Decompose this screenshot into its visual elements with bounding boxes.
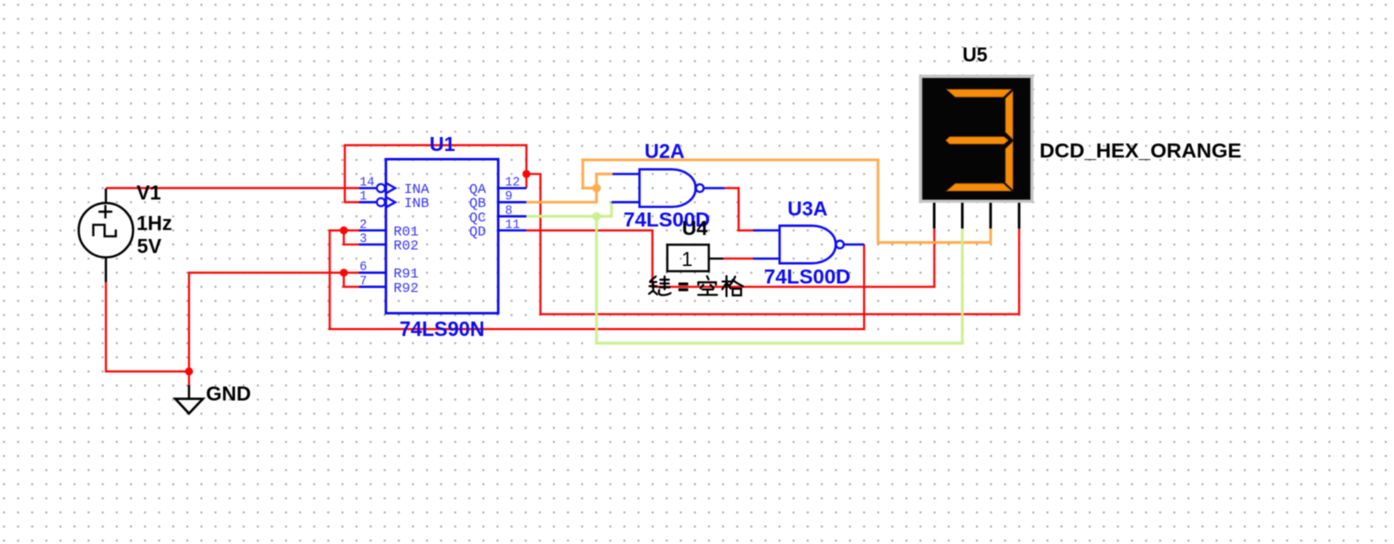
svg-text:U2A: U2A xyxy=(645,141,685,163)
svg-text:74LS90N: 74LS90N xyxy=(400,318,485,341)
svg-text:V1: V1 xyxy=(137,183,161,205)
svg-text:12: 12 xyxy=(505,176,520,190)
svg-text:9: 9 xyxy=(505,190,513,204)
svg-text:GND: GND xyxy=(206,384,251,406)
svg-text:1Hz: 1Hz xyxy=(137,213,173,235)
svg-text:DCD_HEX_ORANGE: DCD_HEX_ORANGE xyxy=(1040,141,1242,163)
svg-text:74LS00D: 74LS00D xyxy=(764,266,851,288)
svg-text:U3A: U3A xyxy=(788,199,828,221)
svg-text:U1: U1 xyxy=(430,134,456,156)
svg-text:INB: INB xyxy=(404,196,429,212)
svg-text:7: 7 xyxy=(360,274,368,288)
svg-text:1: 1 xyxy=(360,190,368,204)
svg-text:11: 11 xyxy=(505,218,520,232)
svg-text:U4: U4 xyxy=(682,218,708,240)
svg-text:2: 2 xyxy=(360,218,368,232)
svg-text:QD: QD xyxy=(469,224,486,240)
svg-text:14: 14 xyxy=(360,176,375,190)
svg-text:R02: R02 xyxy=(394,239,419,255)
svg-text:1: 1 xyxy=(681,249,692,271)
svg-text:U5: U5 xyxy=(963,44,988,66)
svg-text:5V: 5V xyxy=(137,236,162,258)
svg-text:3: 3 xyxy=(360,232,368,246)
svg-text:R92: R92 xyxy=(394,281,419,297)
svg-text:8: 8 xyxy=(505,204,513,218)
svg-text:6: 6 xyxy=(360,260,368,274)
